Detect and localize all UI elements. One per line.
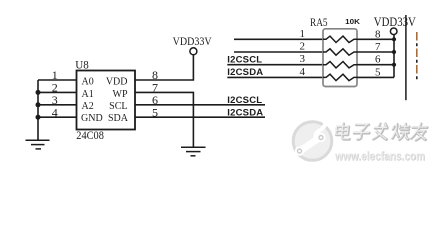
svg-text:6: 6 <box>375 54 381 66</box>
power VDD33V middle circle <box>190 48 197 55</box>
watermark logo elecfans <box>293 114 332 160</box>
ground middle <box>181 147 206 156</box>
wire left bus vertical <box>37 80 39 140</box>
junction dot bus row1 <box>392 37 396 41</box>
svg-text:VDD33V: VDD33V <box>374 15 417 29</box>
wire RA5 pin2 <box>234 51 323 53</box>
svg-text:A1: A1 <box>82 89 94 100</box>
resistor array RA5 body <box>323 29 357 87</box>
svg-text:VDD33V: VDD33V <box>173 36 212 48</box>
wire RA5 pin6 <box>357 64 394 66</box>
svg-text:SDA: SDA <box>108 113 129 124</box>
junction dot bus row3 <box>392 63 396 67</box>
page border line <box>405 15 407 100</box>
ground left <box>26 140 50 149</box>
svg-text:5: 5 <box>375 66 381 78</box>
wire pin6 I2CSCL <box>135 104 265 106</box>
svg-text:WP: WP <box>113 89 128 100</box>
svg-text:8: 8 <box>375 28 381 40</box>
wire RA5 pin3 <box>227 64 323 66</box>
wire pin4 <box>38 116 77 118</box>
svg-text:GND: GND <box>81 113 103 124</box>
svg-text:10K: 10K <box>345 17 360 26</box>
svg-text:4: 4 <box>52 105 58 119</box>
junction dot pin2 <box>36 90 41 95</box>
wire pin5 I2CSDA <box>135 116 265 118</box>
IC U8 24C08 EEPROM body <box>77 71 136 130</box>
wire RA5 pin1 <box>234 38 323 40</box>
svg-text:I2CSCL: I2CSCL <box>227 55 262 66</box>
svg-text:1: 1 <box>300 28 306 40</box>
svg-text:24C08: 24C08 <box>76 130 104 142</box>
svg-text:4: 4 <box>300 66 306 78</box>
page border dash dots black <box>416 43 418 81</box>
svg-text:U8: U8 <box>75 57 89 71</box>
junction dot pin4 <box>36 115 41 120</box>
svg-text:3: 3 <box>300 53 306 65</box>
wire RA5 pin5 <box>357 76 394 78</box>
watermark text www.elecfans.com <box>334 149 425 163</box>
resistor zigzag R3 <box>323 62 357 68</box>
svg-text:RA5: RA5 <box>310 17 328 29</box>
svg-text:I2CSCL: I2CSCL <box>227 95 262 106</box>
svg-text:7: 7 <box>375 41 381 53</box>
wire RA5 pin7 <box>357 51 394 53</box>
wire RA5 pin8 <box>357 38 394 40</box>
resistor zigzag R2 <box>323 49 357 55</box>
junction dot pin3 <box>36 102 41 107</box>
svg-text:www.elecfans.com: www.elecfans.com <box>334 149 425 163</box>
power VDD33V right circle <box>390 28 397 35</box>
wire pin2 <box>38 91 77 93</box>
wire RA5 pin4 <box>227 76 323 78</box>
wire pin7 to ground <box>135 92 193 147</box>
resistor zigzag R1 <box>323 36 357 42</box>
wire pin3 <box>38 104 77 106</box>
wire pin1 <box>38 79 77 81</box>
svg-text:VDD: VDD <box>106 77 128 88</box>
svg-text:SCL: SCL <box>109 101 127 112</box>
svg-text:2: 2 <box>300 41 306 53</box>
svg-text:A0: A0 <box>82 77 94 88</box>
page border dashed orange <box>416 32 418 81</box>
junction dot bus row2 <box>392 50 396 54</box>
svg-text:I2CSDA: I2CSDA <box>227 108 263 119</box>
wire right bus <box>393 35 395 78</box>
svg-text:A2: A2 <box>82 101 94 112</box>
svg-text:I2CSDA: I2CSDA <box>227 67 263 78</box>
wire pin8 to VDD <box>135 55 193 80</box>
resistor zigzag R4 <box>323 74 357 80</box>
